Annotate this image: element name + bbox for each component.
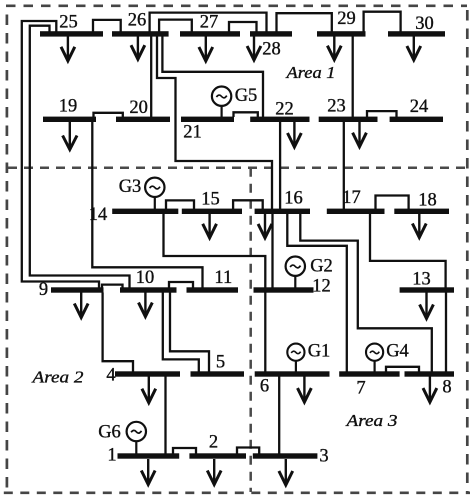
wire line 26-16: [157, 36, 272, 209]
wire line 27-28: [229, 22, 257, 32]
wire line 28-29: [277, 13, 332, 32]
svg-text:Area 1: Area 1: [285, 63, 335, 82]
bus 18 bar: [394, 209, 449, 214]
bus 6 bar: [255, 371, 330, 376]
bus 22 bar: [250, 117, 309, 122]
generator G1 circle: [287, 344, 304, 361]
wire line 1-2: [173, 448, 196, 455]
frame: outer dashed border left: [6, 15, 9, 493]
bus 13 bar: [400, 287, 454, 292]
bus 2 bar: [189, 453, 246, 458]
svg-text:Area 2: Area 2: [31, 368, 84, 387]
wire line 25-9 (left outer): [22, 21, 99, 288]
bus 24 bar: [390, 117, 443, 122]
bus 7 bar: [339, 371, 399, 376]
bus 11 bar: [187, 287, 239, 292]
generator G4 stem: [374, 360, 376, 372]
svg-text:20: 20: [129, 98, 148, 118]
load arrow bus 9: [74, 293, 88, 318]
bus 16 bar: [255, 209, 310, 214]
wire line 21-22: [234, 112, 258, 117]
wire line 25-26: [93, 20, 121, 32]
wire line 12-6: [264, 292, 266, 372]
svg-text:5: 5: [216, 353, 225, 373]
svg-text:4: 4: [106, 366, 115, 386]
wire line 9-4: [103, 293, 133, 373]
bus 9 bar: [51, 287, 104, 292]
wire line 2-3: [237, 448, 259, 455]
load arrow bus 13: [420, 293, 434, 319]
svg-text:G3: G3: [119, 177, 142, 197]
generator G2 circle: [286, 257, 305, 276]
bus 20 bar: [116, 117, 170, 122]
wire line 29-23: [352, 36, 354, 117]
svg-text:21: 21: [183, 123, 202, 143]
frame: inner dashed boundary between Area 1 and Areas 2/3: [8, 167, 467, 170]
svg-text:14: 14: [89, 205, 108, 225]
load arrow bus 30: [407, 36, 421, 60]
wire line 10-11: [169, 282, 193, 288]
wire line 4-1: [164, 377, 166, 455]
svg-text:G4: G4: [386, 342, 409, 362]
svg-text:9: 9: [39, 280, 48, 300]
svg-text:G1: G1: [308, 342, 331, 362]
frame: outer dashed border top: [6, 4, 467, 7]
svg-text:22: 22: [275, 100, 294, 120]
wire line 26-22: [162, 36, 263, 117]
wire line 16-8: [300, 214, 432, 373]
wire line 23-17: [343, 121, 345, 209]
bus 8 bar: [405, 371, 455, 376]
load arrow bus 26: [131, 36, 145, 59]
load arrow bus 22: [288, 121, 302, 147]
wire line 9-10: [102, 285, 123, 288]
bus 12 bar: [254, 287, 314, 292]
wire line 26-27: [159, 20, 192, 32]
svg-text:2: 2: [209, 433, 218, 453]
load arrow bus 25: [61, 36, 75, 60]
svg-text:10: 10: [136, 268, 155, 288]
bus 28 bar: [250, 31, 292, 36]
frame: outer dashed border right: [466, 10, 469, 492]
svg-text:15: 15: [201, 190, 220, 210]
generator G3 stem: [154, 197, 156, 210]
svg-text:7: 7: [356, 379, 365, 399]
wire line 25-10 (left inner): [30, 26, 130, 288]
bus 10 bar: [120, 287, 177, 292]
svg-text:13: 13: [412, 270, 431, 290]
svg-text:17: 17: [342, 188, 361, 208]
generator G4 circle: [366, 344, 383, 361]
load arrow bus 4: [142, 377, 156, 403]
load arrow bus 6: [298, 377, 312, 403]
svg-text:28: 28: [262, 40, 281, 60]
bus 29 bar: [317, 31, 366, 36]
bus 30 bar: [388, 31, 445, 36]
wire line 14-12: [164, 214, 266, 289]
generator G3 circle: [145, 178, 164, 197]
wire line 10-5 inner: [163, 293, 199, 373]
load arrow bus 27: [199, 36, 213, 61]
wire line 16-7: [287, 214, 347, 373]
svg-text:27: 27: [200, 13, 219, 33]
wire line 7-8: [386, 367, 419, 372]
wire line 19-20: [94, 113, 123, 118]
bus 3 bar: [253, 453, 318, 458]
load arrow bus 15: [203, 214, 217, 238]
load arrow bus 23: [353, 121, 367, 146]
load arrow bus 18: [412, 214, 426, 238]
bus 1 bar: [118, 453, 180, 458]
svg-text:12: 12: [312, 277, 331, 297]
svg-text:18: 18: [418, 191, 437, 211]
wire line 14-15: [166, 200, 194, 209]
bus 21 bar: [181, 117, 234, 122]
wire line 17-13: [370, 214, 446, 289]
svg-text:6: 6: [260, 377, 269, 397]
wire line 26-20: [150, 36, 152, 117]
svg-text:G6: G6: [98, 423, 121, 443]
bus 14 bar: [112, 209, 178, 214]
bus 27 bar: [180, 31, 240, 36]
svg-text:3: 3: [319, 447, 328, 467]
wire line 29-30: [364, 12, 401, 32]
wire line 16-12: [271, 214, 273, 289]
svg-text:30: 30: [415, 14, 434, 34]
generator G6 stem: [135, 441, 137, 455]
wire line 23-24: [367, 111, 397, 117]
svg-text:29: 29: [337, 9, 356, 29]
wire line 22-16: [279, 121, 281, 209]
bus 15 bar: [182, 209, 242, 214]
bus 17 bar: [327, 209, 385, 214]
wire line 10-5 outer: [170, 293, 209, 373]
generator G6 circle: [127, 422, 146, 441]
bus 4 bar: [115, 371, 180, 376]
load arrow bus 10: [139, 293, 153, 317]
svg-text:11: 11: [214, 268, 232, 288]
wire line 17-18: [376, 196, 409, 210]
load arrow bus 16: [258, 214, 272, 238]
svg-text:23: 23: [327, 97, 346, 117]
wire line 19-11: [92, 121, 202, 288]
wire line 15-16: [233, 200, 263, 209]
frame: inner dashed boundary between Area 2 and Area 3: [249, 168, 252, 492]
load arrow bus 1: [141, 459, 155, 485]
bus 23 bar: [319, 117, 378, 122]
bus 25 bar: [40, 31, 103, 36]
wire line 13-8: [445, 292, 447, 372]
frame: outer dashed border bottom: [4, 491, 470, 494]
svg-text:1: 1: [107, 446, 116, 466]
wire line 26-28: [150, 13, 267, 32]
generator G2 stem: [294, 276, 296, 289]
load arrow bus 3: [279, 459, 293, 485]
load arrow bus 8: [423, 377, 437, 403]
generator G5 circle: [212, 87, 231, 106]
bus 19 bar: [43, 117, 96, 122]
load arrow bus 19: [63, 122, 77, 150]
svg-text:G5: G5: [235, 86, 258, 106]
svg-text:8: 8: [442, 378, 451, 398]
generator G1 stem: [295, 360, 297, 372]
svg-text:19: 19: [59, 97, 78, 117]
bus 26 bar: [112, 31, 169, 36]
svg-text:24: 24: [410, 97, 429, 117]
svg-text:16: 16: [284, 189, 303, 209]
svg-text:Area 3: Area 3: [345, 411, 397, 430]
svg-text:26: 26: [128, 11, 147, 31]
wire line 6-3: [278, 377, 280, 455]
generator G5 stem: [221, 106, 223, 117]
load arrow bus 29: [327, 36, 341, 59]
bus 5 bar: [191, 371, 245, 376]
load arrow bus 28: [247, 36, 261, 60]
svg-text:25: 25: [59, 13, 78, 33]
load arrow bus 2: [207, 459, 221, 485]
svg-text:G2: G2: [310, 257, 333, 277]
